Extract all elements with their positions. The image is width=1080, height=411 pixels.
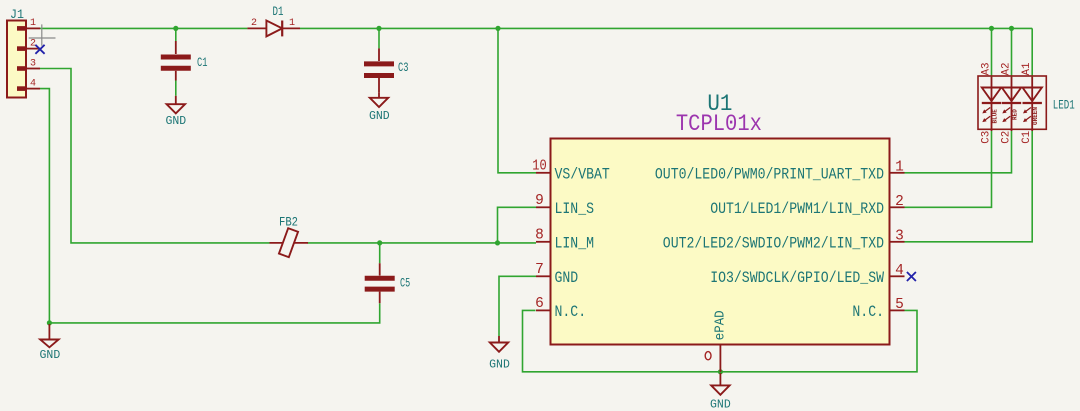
wire: VBUS rail left segment from J1 pin 1 to D1 anode — [40, 27, 247, 29]
svg-text:J1: J1 — [10, 8, 24, 22]
wire: LED1 cathode C3 down to U1 pin 2 — [905, 131, 992, 207]
ground symbol below C3 — [369, 93, 390, 123]
wire: C1 to GND — [175, 81, 177, 96]
LED element 3 cathode lead — [1031, 88, 1033, 104]
J1 pin 1 contact bar — [17, 26, 26, 31]
U1 pin 7 stub — [536, 275, 551, 277]
U1 ePAD pin 0 stub — [719, 345, 721, 372]
svg-text:OUT0/LED0/PWM0/PRINT_UART_TXD: OUT0/LED0/PWM0/PRINT_UART_TXD — [655, 166, 884, 184]
U1 pin 6 stub — [536, 309, 551, 311]
svg-text:ePAD: ePAD — [712, 310, 728, 340]
wire: drop from rail to U1 VS/VBAT pin 10 — [498, 28, 536, 172]
U1 ePAD pin 0 number — [705, 352, 711, 360]
ground symbol below ePAD — [710, 373, 731, 411]
U1 pin 1 stub — [890, 172, 905, 174]
wire: drop from rail to LED1 anode A2 — [1011, 28, 1013, 77]
svg-text:2: 2 — [30, 38, 36, 49]
svg-text:A1: A1 — [1021, 62, 1033, 75]
ground symbol below U1 pin 7 — [489, 336, 510, 372]
U1 pin 9 stub — [536, 206, 551, 208]
C1 bottom lead — [175, 71, 177, 81]
svg-text:OUT2/LED2/SWDIO/PWM2/LIN_TXD: OUT2/LED2/SWDIO/PWM2/LIN_TXD — [663, 235, 884, 253]
wire: VBUS rail right segment from D1 cathode across to LED column A1 — [300, 27, 1032, 29]
svg-text:C5: C5 — [400, 277, 410, 291]
D1 cathode stub (pin 1) — [282, 27, 300, 29]
wire: J1 pin 4 down to ground rail — [40, 89, 49, 323]
J1 pin 1 stub — [26, 27, 40, 29]
svg-text:3: 3 — [30, 58, 36, 69]
junction at C5 top / LIN_M net — [377, 240, 382, 245]
LED element 3 cathode bar — [1023, 102, 1042, 104]
U1 pin 3 stub — [890, 241, 905, 243]
svg-text:GND: GND — [369, 110, 390, 123]
C3 bottom plate — [364, 73, 394, 78]
svg-text:8: 8 — [535, 228, 544, 244]
svg-text:FB2: FB2 — [279, 216, 298, 230]
svg-text:1: 1 — [289, 18, 295, 29]
C5 bottom plate — [365, 287, 395, 292]
ground symbol at bottom-left node — [40, 324, 61, 362]
U1 pin 2 stub — [890, 206, 905, 208]
LED element 1 cathode bar — [982, 102, 1001, 104]
capacitor C1 — [161, 41, 208, 81]
D1 anode stub (pin 2) — [247, 27, 266, 29]
svg-text:3: 3 — [895, 228, 904, 244]
J1 pin 2 contact bar — [17, 46, 26, 51]
svg-text:LED1: LED1 — [1053, 99, 1075, 113]
wire: LED1 cathode C1 down to U1 pin 3 — [905, 131, 1033, 242]
wire: J1 pin 3 to FB2 and on to U1 LIN_M pin 8 — [40, 69, 270, 243]
LED array LED1 — [978, 62, 1075, 144]
diode D1 — [247, 6, 300, 36]
svg-text:A2: A2 — [1001, 63, 1013, 76]
svg-text:GND: GND — [165, 115, 186, 128]
LED element 2 cathode bar — [1002, 102, 1021, 104]
svg-text:LIN_S: LIN_S — [555, 200, 595, 218]
LED element 2 emission arrows — [1002, 108, 1010, 123]
wire: U1 LIN_S pin 9 branch down to LIN_M net — [498, 207, 537, 243]
FB2 lead line — [270, 242, 309, 244]
svg-text:C1: C1 — [197, 57, 207, 71]
svg-text:C3: C3 — [981, 131, 993, 144]
svg-text:D1: D1 — [273, 6, 284, 20]
LED element 3 triangle — [1023, 88, 1042, 102]
svg-text:OUT1/LED1/PWM1/LIN_RXD: OUT1/LED1/PWM1/LIN_RXD — [710, 200, 884, 218]
D1 triangle — [266, 21, 282, 37]
svg-text:GND: GND — [555, 269, 579, 287]
junction at bottom-left ground node — [47, 320, 52, 325]
svg-text:GND: GND — [40, 349, 61, 362]
J1 pin 2 stub — [26, 48, 40, 50]
svg-text:9: 9 — [535, 193, 544, 209]
wire: rail corner down to LED1 anode A1 — [1031, 28, 1033, 77]
LED1 body outline — [978, 76, 1046, 129]
J1 pin 4 contact bar — [17, 86, 26, 91]
wire: C5 bottom to bottom ground rail — [49, 303, 379, 323]
junction at C1 top — [173, 26, 178, 31]
C1 bottom plate — [161, 66, 191, 71]
D1 cathode bar — [281, 21, 283, 37]
ferrite bead FB2 — [270, 216, 309, 258]
wire: drop from rail to C1 — [175, 28, 177, 41]
J1 pin 4 stub — [26, 88, 40, 90]
U1 pin 5 stub — [890, 309, 905, 311]
LED element 3 (GREEN) anode lead — [1031, 77, 1033, 88]
svg-text:7: 7 — [535, 262, 544, 278]
junction at A3 drop — [989, 26, 994, 31]
capacitor C3 — [364, 48, 408, 92]
connector J1 — [7, 8, 40, 98]
editor crosshair cursor — [29, 24, 56, 45]
LED element 1 cathode lead — [991, 88, 993, 104]
svg-text:C1: C1 — [1021, 130, 1033, 143]
C5 top plate — [365, 276, 395, 281]
svg-text:C3: C3 — [398, 62, 408, 76]
svg-text:4: 4 — [30, 78, 36, 89]
LED element 2 triangle — [1002, 88, 1021, 102]
junction at A2 drop — [1009, 26, 1014, 31]
svg-text:N.C.: N.C. — [852, 303, 884, 321]
junction at C3 top — [376, 26, 381, 31]
svg-text:GREEN: GREEN — [1032, 107, 1039, 125]
J1 pin 3 stub — [26, 68, 40, 70]
LED element 2 (RED) anode lead — [1011, 77, 1013, 88]
LED element 2 cathode lead — [1011, 88, 1013, 104]
ground symbol below C1 — [165, 96, 186, 128]
svg-text:1: 1 — [895, 159, 904, 175]
svg-text:A3: A3 — [981, 63, 993, 76]
svg-text:IO3/SWDCLK/GPIO/LED_SW: IO3/SWDCLK/GPIO/LED_SW — [710, 269, 884, 287]
C3 top plate — [364, 61, 394, 66]
LED element 1 emission arrows — [982, 108, 990, 123]
wire: drop from rail to LED1 anode A3 — [991, 28, 993, 77]
svg-text:GND: GND — [489, 359, 510, 372]
wire: LED1 cathode C2 down to U1 pin 1 — [905, 131, 1012, 173]
wire: FB2 right terminal to U1 pin 8 — [308, 242, 537, 244]
U1 pin 4 stub — [890, 275, 905, 277]
C1 top lead — [175, 41, 177, 54]
svg-text:C2: C2 — [1001, 131, 1013, 144]
wire: C5 top lead — [379, 243, 381, 263]
C3 top lead — [378, 48, 380, 61]
LED element 1 (BLUE) anode lead — [991, 77, 993, 88]
svg-text:LIN_M: LIN_M — [555, 235, 595, 253]
LED element 3 emission arrows — [1023, 108, 1031, 123]
svg-text:4: 4 — [895, 263, 904, 279]
svg-text:TCPL01x: TCPL01x — [676, 111, 762, 137]
junction at ePAD ground node — [718, 369, 723, 374]
svg-text:6: 6 — [535, 296, 544, 312]
no-connect X on U1 pin 4 — [907, 272, 916, 281]
C5 top lead — [379, 263, 381, 275]
svg-text:2: 2 — [895, 194, 904, 210]
svg-text:1: 1 — [30, 18, 36, 29]
svg-text:BLUE: BLUE — [992, 109, 999, 124]
svg-text:VS/VBAT: VS/VBAT — [555, 166, 610, 184]
C1 top plate — [161, 55, 191, 60]
svg-text:N.C.: N.C. — [555, 303, 587, 321]
U1 body — [551, 139, 890, 345]
junction at LIN_S branch on LIN_M net — [495, 240, 500, 245]
svg-text:2: 2 — [251, 18, 257, 29]
svg-text:RED: RED — [1012, 109, 1019, 120]
C5 bottom lead — [379, 292, 381, 304]
capacitor C5 — [365, 263, 410, 303]
wire: U1 GND pin 7 to ground symbol — [499, 276, 536, 336]
wire: drop from rail to C3 — [378, 28, 380, 48]
IC U1 — [532, 91, 904, 372]
U1 pin 8 stub — [536, 241, 551, 243]
svg-text:5: 5 — [895, 297, 904, 313]
wire: N.C. loop joining U1 pin 6, ePAD and pin 5 — [523, 310, 918, 371]
svg-text:10: 10 — [532, 158, 546, 174]
C3 bottom lead — [378, 78, 380, 93]
svg-text:GND: GND — [710, 399, 731, 411]
LED element 1 triangle — [982, 88, 1001, 102]
no-connect X on J1 pin 2 — [35, 45, 44, 54]
U1 pin 10 stub — [536, 172, 551, 174]
J1 body — [7, 21, 26, 98]
FB2 tilted body — [279, 228, 298, 257]
J1 pin 3 contact bar — [17, 66, 26, 71]
junction at VBAT drop — [495, 26, 500, 31]
